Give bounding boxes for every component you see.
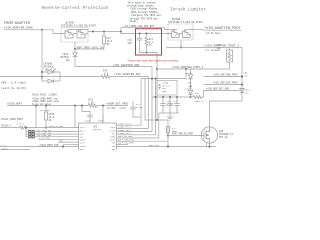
svg-text:SOT-23: SOT-23 <box>219 136 228 139</box>
svg-text:BQ24-PR: BQ24-PR <box>93 128 102 131</box>
wire Q73 gate pin <box>180 40 182 47</box>
node zener bottom <box>189 96 191 98</box>
wire x63 stub <box>62 145 64 147</box>
wire CR73 to sense rail <box>75 57 152 67</box>
wire cap rail <box>152 96 193 98</box>
wire bottom rail left <box>0 146 79 148</box>
svg-text:(0.49V - 4.2V): (0.49V - 4.2V) <box>107 107 126 110</box>
node bypass left <box>151 77 153 79</box>
svg-text:VREF: VREF <box>98 120 104 123</box>
node CR70 lower <box>41 76 43 78</box>
capacitor C70 <box>137 38 143 40</box>
wire IC left row6 <box>38 138 79 140</box>
wire R76 bottom <box>167 133 169 147</box>
capacitor in module <box>158 84 161 90</box>
node at x121 <box>120 30 122 32</box>
svg-text:o 1-2: o 1-2 <box>1 144 7 147</box>
diode CR72B <box>188 87 192 98</box>
svg-text:0.0: 0.0 <box>104 72 109 75</box>
wire caps common <box>159 112 179 114</box>
wire adapter fet rail left <box>0 76 101 78</box>
svg-text:NO_STUFF: NO_STUFF <box>40 109 51 112</box>
wire Q72 output upper <box>88 30 121 32</box>
node vadp det <box>102 105 104 107</box>
node gate junction <box>74 48 76 50</box>
inductor module box L70AB <box>157 81 177 96</box>
node bottom rail x63 <box>62 146 64 148</box>
wire prot2 to bus <box>204 46 243 48</box>
resistor R77 <box>19 126 28 129</box>
svg-text:+VIN_ADAPTER_PROT: +VIN_ADAPTER_PROT <box>204 27 242 31</box>
wire IC left row4 <box>26 133 79 135</box>
node C78 tap <box>81 105 83 107</box>
wire bypass rail <box>141 78 186 80</box>
svg-text:5V2A RAIL LINES: 5V2A RAIL LINES <box>32 93 57 96</box>
diode CR72A <box>188 69 192 87</box>
wire aux drop <box>144 79 146 121</box>
resistor R72 lead bottom <box>103 44 105 49</box>
resistor R74 <box>145 37 148 47</box>
wire gate chain vertical <box>167 120 169 138</box>
note text block <box>127 1 161 23</box>
svg-text:2.2K: 2.2K <box>88 101 94 104</box>
IC right fan wire 4 <box>117 97 156 135</box>
node CR70 upper <box>41 71 43 73</box>
node red box res tap <box>145 32 147 34</box>
IC right fan wire 3 <box>117 131 153 133</box>
wire sense drop from bundle <box>156 69 158 120</box>
svg-text:GND_A: GND_A <box>2 147 9 150</box>
wire IC left row3 <box>26 131 79 133</box>
IC right fan wire 1 <box>117 79 142 126</box>
wire Q73 internal rail <box>168 29 174 31</box>
node input junction <box>41 29 43 31</box>
transistor Q73 package box <box>168 24 193 40</box>
transistor Q72 package box <box>61 27 88 42</box>
svg-text:+5V2A_CONN_PROT: +5V2A_CONN_PROT <box>1 118 24 121</box>
wire cap bank drop <box>25 128 27 137</box>
wire gate rail <box>75 48 104 50</box>
node bus sns <box>241 76 243 78</box>
svg-text:15V: 15V <box>188 81 193 84</box>
node bypass tap <box>185 68 187 70</box>
wire main rail to inrush <box>121 32 168 34</box>
svg-text:+VIN_ADAPTER_CONN: +VIN_ADAPTER_CONN <box>4 27 33 30</box>
fuse F70 box <box>227 50 233 62</box>
wire sense rail drop <box>151 67 153 132</box>
wire Q72 gate pin down <box>74 42 76 49</box>
diode CR70B <box>42 79 60 83</box>
svg-text:1008: 1008 <box>162 90 168 93</box>
node bottom rail x168 <box>167 146 169 148</box>
wire 5v2a rail <box>7 105 88 107</box>
node red box cap tap <box>138 32 140 34</box>
node bottom rail x211 <box>208 146 210 148</box>
IC right row 7 <box>117 143 129 145</box>
annotation red box missing parts <box>136 29 162 55</box>
resistor R70A lead bottom <box>45 120 47 128</box>
wire fet prot <box>204 84 243 86</box>
svg-text:+5V2A_F_PROT: +5V2A_F_PROT <box>49 125 65 128</box>
svg-text:100K 1%: 100K 1% <box>195 100 205 103</box>
svg-text:18V: 18V <box>66 59 71 62</box>
wire x36 drop <box>35 106 37 128</box>
wire bottom rail right <box>117 146 217 148</box>
svg-text:+VADP_DET_PROT: +VADP_DET_PROT <box>106 103 129 106</box>
wire bypass drop <box>185 69 187 79</box>
wire R75 to bus label <box>203 90 241 97</box>
wire Q73 output <box>188 29 204 31</box>
svg-text:0.1UF: 0.1UF <box>136 106 143 109</box>
wire Q72 internal rail <box>71 29 88 31</box>
wire IC left row8 <box>63 144 79 146</box>
diode CR70A <box>42 70 60 74</box>
svg-text:12A: 12A <box>217 47 222 50</box>
capacitor C71 <box>29 130 35 133</box>
svg-text:+VIN_ADAPTER_PROT_2: +VIN_ADAPTER_PROT_2 <box>172 66 204 69</box>
wire vertical from input node <box>41 30 43 81</box>
IC right pin texts <box>109 126 116 151</box>
svg-text:SI7461DP-T1-GE3 NO_STUFF: SI7461DP-T1-GE3 NO_STUFF <box>168 21 204 24</box>
wire fuse to prot2 <box>229 47 231 50</box>
wire Q70 source down <box>209 143 211 146</box>
svg-text:VDDP: VDDP <box>85 120 91 123</box>
node bypass mid <box>154 77 156 79</box>
svg-text:24V: 24V <box>245 91 250 94</box>
wire fet rail drop <box>148 77 150 129</box>
transistor Q72A symbol <box>61 29 73 38</box>
wire prot label underline <box>204 29 242 31</box>
wire CR70 left post <box>41 77 43 81</box>
transistor Q70 circle <box>201 127 217 143</box>
svg-text:(13.5A max): (13.5A max) <box>205 32 221 35</box>
capacitor C78 <box>87 115 93 117</box>
capacitor C73 <box>29 135 35 138</box>
transistor Q72B symbol <box>73 29 85 38</box>
capacitor C77 <box>167 97 173 113</box>
wire jog to Q72 <box>42 30 61 34</box>
IC right fan wire 2 <box>117 127 149 129</box>
wire fet rail to drop <box>111 76 149 78</box>
wire x75 drop to IC <box>75 106 79 128</box>
resistor R72 <box>103 36 106 44</box>
node cap rail a <box>162 96 164 98</box>
wire 5v2a_f rail <box>0 127 19 129</box>
node R70A bottom <box>45 127 47 129</box>
wire right bus <box>241 47 243 101</box>
IC right fan wire 5 <box>117 113 159 138</box>
wire C78 to rail <box>82 106 90 116</box>
wire CR70 right post <box>59 72 61 81</box>
resistor R71 <box>88 104 98 107</box>
wire gate feed <box>145 119 168 121</box>
node bus fet <box>241 84 243 86</box>
capacitor C70 lead bottom <box>140 40 147 53</box>
svg-text:+VIN_ADAPTER_FET: +VIN_ADAPTER_FET <box>114 73 141 76</box>
wire Q70 body leg <box>205 143 207 147</box>
wire fuse branch up <box>229 62 231 69</box>
node cap bank tap <box>25 127 27 129</box>
node inrush rail left <box>156 68 158 70</box>
svg-text:1UF: 1UF <box>128 42 133 45</box>
wire red box bottom out <box>147 53 158 70</box>
capacitor C70 lead top <box>139 34 141 39</box>
resistor R70A lead <box>45 106 47 112</box>
IC left pin texts <box>80 126 87 151</box>
wire inrush rail <box>157 68 230 70</box>
wire R71 out <box>98 105 128 107</box>
IC pin stub top 1 <box>89 117 91 123</box>
wire IC left row7 <box>58 141 79 143</box>
wire sns prot <box>204 76 243 78</box>
fuse F70 element <box>228 51 231 61</box>
svg-text:+VIN_ADP_FET_PROT: +VIN_ADP_FET_PROT <box>213 82 238 85</box>
capacitor C75 <box>160 97 166 113</box>
resistor R72 lead top <box>103 32 105 37</box>
node gate chain top <box>156 119 158 121</box>
wire bottom rail 2 <box>0 148 30 150</box>
wire det to IC pin <box>102 106 104 123</box>
resistor R70 <box>101 75 111 78</box>
svg-text:Reverse-Current Protection: Reverse-Current Protection <box>41 6 108 11</box>
svg-text:PWR: PWR <box>244 74 249 77</box>
diode CR74 on bus <box>240 89 244 93</box>
node C77 top <box>169 96 171 98</box>
svg-text:+VIN_ADP_DET_SNS: +VIN_ADP_DET_SNS <box>206 88 230 91</box>
node 5v2a x36 <box>35 105 37 107</box>
svg-text:+VIN_ADAPTER_PROT_2: +VIN_ADAPTER_PROT_2 <box>204 44 239 48</box>
transistor Q73B symbol <box>179 29 191 38</box>
svg-text:FROM ADAPTER: FROM ADAPTER <box>4 22 31 26</box>
resistor R74 lead top <box>146 34 148 38</box>
ground caps <box>167 117 173 120</box>
node 5v2a x75 <box>74 105 76 107</box>
svg-text:R75: R75 <box>195 92 200 95</box>
wire bus elbow to Q70 <box>210 101 243 127</box>
IC U70 box <box>79 123 117 152</box>
resistor R70A <box>45 112 48 120</box>
capacitor C74 lead bottom <box>133 109 141 117</box>
resistor R75 <box>193 95 203 98</box>
svg-text:ILIM_PROT: ILIM_PROT <box>39 137 51 140</box>
resistor R76 <box>167 127 170 134</box>
IC right row 6 <box>117 140 169 142</box>
svg-text:Inrush Limiter: Inrush Limiter <box>170 8 207 13</box>
wire Q72 output lower stub <box>85 33 88 35</box>
wire choke bypass <box>121 28 168 32</box>
svg-text:diode.: diode. <box>130 20 138 23</box>
node 5v2a x46 <box>45 105 47 107</box>
node gate branch <box>167 134 169 136</box>
capacitor C76 <box>174 97 180 113</box>
svg-text:These two and their pads are m: These two and their pads are missing <box>127 58 178 62</box>
node cap rail b <box>176 96 178 98</box>
svg-text:+VIN_ADP_SNS_PROT: +VIN_ADP_SNS_PROT <box>213 74 238 77</box>
wire 5v2a_f rail 2 <box>28 127 79 129</box>
svg-text:+VIN_ADAPTER_SNS: +VIN_ADAPTER_SNS <box>113 64 140 67</box>
capacitor C74 <box>130 107 136 109</box>
svg-text:CR72A: CR72A <box>185 72 192 75</box>
node at x93 <box>92 30 94 32</box>
svg-text:VIN: ~1.5 (max): VIN: ~1.5 (max) <box>1 81 27 85</box>
node mid drop bottom <box>154 96 156 98</box>
node at x104 <box>103 30 105 32</box>
wire input <box>4 29 42 31</box>
wire prot2 rail <box>166 46 204 48</box>
node zener stack mid <box>189 85 191 87</box>
resistor R74 lead bottom <box>146 47 148 53</box>
wire caps ground stem <box>169 113 171 117</box>
node Q73 gate <box>180 46 182 48</box>
svg-text:+5V2A_PROT_RTN: +5V2A_PROT_RTN <box>39 144 59 147</box>
transistor Q70 symbol <box>201 127 209 143</box>
capacitor C72 <box>29 133 35 136</box>
capacitor C74 lead <box>132 101 134 107</box>
diode CR73 lead <box>74 49 76 53</box>
node red box bottom <box>145 51 147 53</box>
svg-text:(will be 19.5V): (will be 19.5V) <box>1 86 27 90</box>
diode CR73 zener <box>73 53 77 57</box>
transistor Q73A symbol <box>168 29 180 38</box>
wire IC left row5 <box>26 136 79 138</box>
wire mid drop <box>155 79 157 98</box>
svg-text:R_NS 0: R_NS 0 <box>17 123 25 126</box>
wire Q70 gate <box>168 135 201 137</box>
svg-text:+5V2A_ADPT: +5V2A_ADPT <box>7 103 23 106</box>
IC pin stub top 2 <box>102 114 104 123</box>
